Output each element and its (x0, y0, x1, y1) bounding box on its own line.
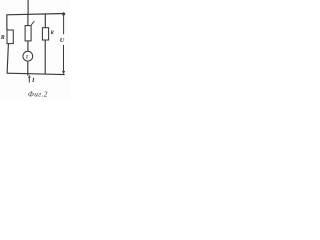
wire top bus (7, 14, 66, 15)
variable arrow tick on middle resistor (31, 21, 34, 25)
wire middle resistor to meter (27, 41, 29, 51)
svg-text:Фиг.2: Фиг.2 (28, 90, 48, 99)
voltage U arrowhead bottom (62, 71, 65, 75)
current I arrowhead (28, 75, 30, 78)
svg-text:U: U (60, 37, 65, 44)
wire below right resistor (44, 40, 46, 74)
wire top input stub (27, 0, 29, 14)
meter G circle (23, 51, 33, 61)
resistor R2 middle box (25, 26, 31, 41)
wire meter to bottom bus (27, 61, 29, 76)
resistor R3 right box (42, 28, 48, 40)
current I arrow shaft (28, 76, 30, 82)
resistor R1 left box (7, 30, 13, 44)
wire bottom bus (7, 73, 65, 74)
wire below left resistor (7, 44, 8, 74)
wire right branch upper (44, 14, 46, 28)
voltage U arrowhead top (62, 12, 65, 16)
svg-text:R: R (0, 35, 5, 41)
voltage U dimension line upper segment (63, 14, 65, 34)
svg-text:I: I (31, 77, 35, 84)
wire middle branch upper (27, 14, 29, 26)
wire left rail upper (6, 15, 8, 31)
voltage U dimension line lower segment (63, 45, 65, 73)
